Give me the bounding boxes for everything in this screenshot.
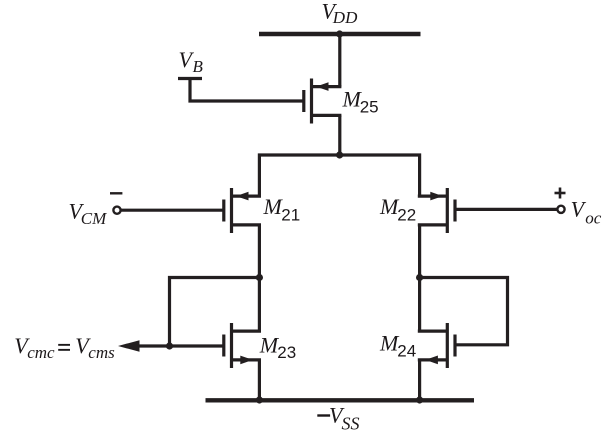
svg-text:24: 24 [397, 341, 416, 360]
arrow to Vcmc [118, 340, 140, 352]
node M23 source rail junction [256, 396, 263, 403]
svg-text:oc: oc [585, 209, 602, 228]
label VB [179, 47, 204, 76]
wire M23 gate run [128, 344, 224, 347]
svg-text:SS: SS [342, 413, 360, 432]
label M23 [259, 332, 296, 362]
label M24 [379, 331, 416, 361]
wire M21 drain down to node A [258, 225, 261, 331]
wire M23 source to VSS rail [258, 360, 261, 400]
wire VB to M25 gate [190, 79, 304, 102]
svg-text:21: 21 [281, 205, 300, 224]
VSS rail [206, 398, 475, 402]
label VDD [322, 0, 359, 27]
wire left feedback node A to M23 gate [170, 278, 260, 347]
wire M24 drain loop to gate [420, 278, 508, 345]
label M25 [342, 87, 379, 117]
terminal VCM circle [113, 207, 120, 214]
label Vcmc = Vcms [14, 333, 115, 362]
svg-text:CM: CM [81, 209, 107, 228]
svg-text:cms: cms [88, 343, 115, 362]
svg-text:23: 23 [277, 343, 296, 362]
label Voc [571, 197, 602, 228]
terminal Voc circle [557, 206, 564, 213]
wire M24 source to VSS rail [418, 360, 421, 400]
node B [416, 274, 423, 281]
wire M22 gate to Voc [455, 208, 557, 211]
label minus [110, 192, 122, 194]
wire VCM to M21 gate [121, 209, 224, 212]
label plus [555, 188, 566, 199]
wire tail rail [259, 155, 419, 196]
wire M25 drain to tail node [338, 115, 341, 155]
node M24 source rail junction [416, 396, 423, 403]
label -VSS [317, 403, 359, 432]
svg-text:B: B [193, 57, 204, 76]
node VDD junction [336, 30, 343, 37]
label VCM [69, 199, 108, 229]
terminal VB [178, 77, 202, 80]
node M23 gate junction [166, 342, 173, 349]
svg-text:22: 22 [397, 205, 416, 224]
svg-text:25: 25 [360, 97, 379, 116]
wire M25 source to VDD [338, 34, 341, 87]
VDD rail [259, 32, 421, 36]
label M22 [379, 194, 416, 224]
node A [256, 274, 263, 281]
transistor M22 [418, 188, 455, 233]
label M21 [263, 194, 301, 224]
transistor M23 [224, 323, 261, 368]
node tail junction [336, 151, 343, 158]
svg-text:cmc: cmc [27, 343, 55, 362]
svg-text:DD: DD [332, 8, 358, 27]
transistor M24 [418, 323, 455, 368]
wire M22 drain down to node B [418, 225, 421, 331]
transistor M21 [224, 188, 261, 233]
transistor M25 [304, 79, 342, 124]
